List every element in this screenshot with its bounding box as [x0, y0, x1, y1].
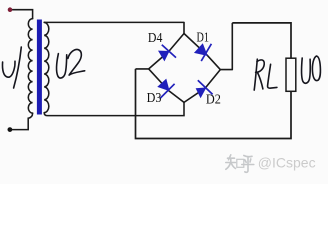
svg-text:D1: D1 — [197, 30, 210, 45]
svg-text:D2: D2 — [206, 92, 221, 107]
svg-text:D3: D3 — [147, 90, 162, 105]
svg-text:@ICspec: @ICspec — [258, 155, 316, 171]
svg-text:D4: D4 — [148, 30, 163, 45]
